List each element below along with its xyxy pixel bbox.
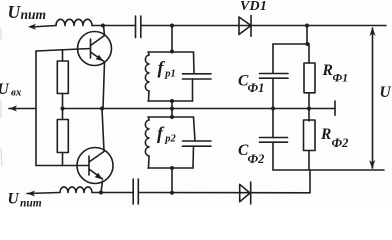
svg-text:VD1: VD1	[240, 0, 267, 14]
svg-text:вх: вх	[11, 87, 22, 99]
svg-text:f: f	[157, 123, 165, 143]
svg-text:p2: p2	[164, 134, 176, 145]
svg-text:U: U	[380, 84, 392, 101]
svg-text:Ф2: Ф2	[332, 136, 349, 150]
svg-text:пит: пит	[21, 7, 47, 22]
svg-text:U: U	[8, 2, 22, 22]
svg-text:U: U	[8, 191, 20, 208]
svg-text:пит: пит	[20, 198, 42, 208]
svg-text:U: U	[0, 81, 10, 98]
svg-text:Ф1: Ф1	[333, 73, 349, 85]
svg-text:Ф1: Ф1	[248, 81, 265, 95]
svg-text:R: R	[320, 126, 331, 143]
svg-text:f: f	[158, 58, 166, 78]
svg-text:p1: p1	[164, 69, 176, 80]
svg-text:Ф2: Ф2	[248, 152, 265, 166]
svg-text:R: R	[322, 62, 333, 79]
